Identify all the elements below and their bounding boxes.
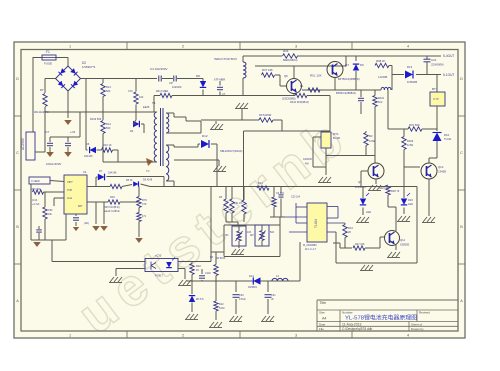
svg-text:1200CR: 1200CR <box>303 158 312 161</box>
svg-text:C30: C30 <box>239 294 244 297</box>
svg-text:+C35: +C35 <box>155 254 162 258</box>
svg-text:ZD 5.6: ZD 5.6 <box>196 298 204 301</box>
svg-text:3: 3 <box>295 334 297 338</box>
svg-text:C50: C50 <box>48 209 53 212</box>
svg-text:C31: C31 <box>271 294 276 297</box>
svg-text:473: 473 <box>142 202 147 206</box>
svg-text:B: B <box>460 225 463 229</box>
svg-text:D: D <box>16 77 19 81</box>
svg-text:C21: C21 <box>431 58 437 62</box>
svg-text:R31 560: R31 560 <box>409 123 420 127</box>
svg-text:102: 102 <box>139 95 144 99</box>
svg-text:R27 10K: R27 10K <box>355 243 365 246</box>
svg-text:A: A <box>16 299 19 303</box>
svg-text:6TF MBR: 6TF MBR <box>214 78 225 82</box>
svg-text:3.7V: 3.7V <box>433 97 439 101</box>
svg-text:D12: D12 <box>202 134 208 138</box>
svg-text:FUSE: FUSE <box>44 62 52 66</box>
svg-text:C23 104: C23 104 <box>291 196 301 199</box>
svg-text:C4 102/400V: C4 102/400V <box>150 67 168 71</box>
svg-text:Gnd: Gnd <box>67 196 72 200</box>
svg-text:Size: Size <box>319 311 325 315</box>
svg-text:D8: D8 <box>196 74 200 78</box>
svg-text:Q7: Q7 <box>345 63 349 67</box>
svg-text:D10: D10 <box>444 133 450 137</box>
svg-text:4: 4 <box>407 334 409 338</box>
svg-text:RT: RT <box>40 88 44 92</box>
svg-text:1N5397*4: 1N5397*4 <box>82 65 96 69</box>
svg-text:+C6: +C6 <box>70 130 76 134</box>
svg-text:R1: R1 <box>300 84 304 88</box>
svg-text:(C13: (C13 <box>32 199 38 202</box>
svg-text:BZ50C4(389B-D): BZ50C4(389B-D) <box>336 91 356 95</box>
svg-text:R13: R13 <box>106 85 111 89</box>
svg-text:adusF C/NPuF: adusF C/NPuF <box>104 210 120 213</box>
svg-text:3: 3 <box>295 45 297 49</box>
svg-text:470uF: 470uF <box>239 298 246 301</box>
svg-text:Number: Number <box>342 311 353 315</box>
svg-text:4: 4 <box>407 45 409 49</box>
svg-text:R10 10: R10 10 <box>103 143 112 147</box>
svg-text:B+2R: B+2R <box>333 136 340 140</box>
svg-text:R0 510K: R0 510K <box>216 257 226 260</box>
svg-text:AC250V: AC250V <box>21 137 25 150</box>
svg-text:R013 563: R013 563 <box>90 117 102 121</box>
svg-text:1K2: 1K2 <box>378 101 383 104</box>
svg-text:R023: R023 <box>407 139 414 143</box>
svg-text:1/4W: 1/4W <box>369 139 376 143</box>
svg-text:D4: D4 <box>130 129 134 133</box>
svg-text:Q9: Q9 <box>358 180 362 184</box>
svg-text:D14: D14 <box>249 274 254 278</box>
svg-text:F1: F1 <box>46 50 50 54</box>
svg-text:563: 563 <box>106 89 111 93</box>
svg-text:D5 4148: D5 4148 <box>143 179 153 182</box>
svg-text:1N5819: 1N5819 <box>248 286 257 289</box>
svg-text:Sheet of: Sheet of <box>411 322 422 326</box>
svg-text:R022: R022 <box>378 97 385 100</box>
svg-text:SBL2040CT(R10A): SBL2040CT(R10A) <box>220 149 242 153</box>
svg-text:A4: A4 <box>322 317 326 321</box>
svg-text:PC817: PC817 <box>155 274 163 278</box>
svg-text:EE25: EE25 <box>143 105 150 109</box>
svg-text:(2SD5088): (2SD5088) <box>282 97 296 101</box>
svg-text:C: C <box>16 151 19 155</box>
svg-text:Q6: Q6 <box>284 74 288 78</box>
svg-text:D6: D6 <box>86 142 90 146</box>
svg-text:563: 563 <box>106 126 111 130</box>
svg-text:B: B <box>16 225 19 229</box>
svg-text:1: 1 <box>69 45 71 49</box>
svg-text:471: 471 <box>142 215 147 218</box>
svg-text:1N4148: 1N4148 <box>108 172 117 175</box>
svg-text:C9 103: C9 103 <box>276 192 284 195</box>
svg-text:220/600M: 220/600M <box>431 63 444 67</box>
svg-text:R14: R14 <box>106 122 111 126</box>
svg-text:D7: D7 <box>99 169 103 173</box>
svg-text:100uF/400V: 100uF/400V <box>46 162 61 166</box>
svg-text:Q10: Q10 <box>438 165 444 169</box>
svg-text:102/400: 102/400 <box>172 85 182 89</box>
svg-text:C:\Designs\yl578.ddb: C:\Designs\yl578.ddb <box>342 327 373 331</box>
svg-text:R06 30K: R06 30K <box>31 188 41 191</box>
svg-text:5-1OUT: 5-1OUT <box>443 73 454 77</box>
svg-text:R31: R31 <box>283 49 289 53</box>
svg-text:C945B: C945B <box>438 170 446 174</box>
svg-text:R37 436: R37 436 <box>262 68 273 72</box>
svg-text:1N4148: 1N4148 <box>84 155 93 158</box>
svg-text:Title: Title <box>320 301 327 305</box>
svg-text:T1: T1 <box>152 101 156 105</box>
svg-text:SS8050: SS8050 <box>400 243 410 247</box>
svg-text:R08 2K: R08 2K <box>376 59 385 63</box>
svg-text:R0 5125W: R0 5125W <box>259 113 272 117</box>
svg-text:Q11: Q11 <box>400 238 406 242</box>
svg-text:2K: 2K <box>348 230 351 234</box>
svg-text:CP: CP <box>169 81 173 85</box>
svg-text:TOP: TOP <box>67 188 73 192</box>
svg-text:D9: D9 <box>360 63 364 67</box>
svg-text:TR: TR <box>146 169 150 173</box>
svg-text:502: 502 <box>270 231 275 234</box>
svg-text:U1: U1 <box>83 170 87 174</box>
svg-text:R24: R24 <box>258 182 263 185</box>
svg-text:R22: R22 <box>196 264 201 268</box>
svg-text:11-Aug-2013: 11-Aug-2013 <box>342 322 361 326</box>
svg-text:1: 1 <box>69 334 71 338</box>
svg-text:512C: 512C <box>219 307 225 310</box>
svg-text:L4V20B: L4V20B <box>378 75 388 79</box>
svg-text:R011 3K3(9B-D): R011 3K3(9B-D) <box>290 100 309 104</box>
svg-text:LED: LED <box>366 210 371 214</box>
svg-text:R0L 12K: R0L 12K <box>310 74 322 78</box>
svg-text:(A6): (A6) <box>84 222 89 225</box>
svg-text:2: 2 <box>182 45 184 49</box>
svg-text:15K 1%: 15K 1% <box>234 202 243 205</box>
svg-text:M_C84C88C: M_C84C88C <box>303 244 317 247</box>
svg-text:C NEW: C NEW <box>31 179 40 183</box>
svg-text:TL494: TL494 <box>314 219 318 228</box>
svg-text:C: C <box>460 151 463 155</box>
svg-text:D13: D13 <box>407 65 413 69</box>
svg-text:R70: R70 <box>142 198 147 202</box>
svg-text:1/4W: 1/4W <box>407 143 414 147</box>
svg-text:VIP?: VIP? <box>67 180 73 184</box>
svg-text:D16: D16 <box>408 198 413 202</box>
svg-text:TL431: TL431 <box>444 137 452 141</box>
svg-text:YL-578锂电池充电器原理图: YL-578锂电池充电器原理图 <box>345 313 417 321</box>
svg-text:R5 1K: R5 1K <box>126 179 133 182</box>
svg-text:R16: R16 <box>110 195 115 199</box>
svg-text:A: A <box>460 299 463 303</box>
svg-text:Revised: Revised <box>419 311 430 315</box>
svg-text:R2: R2 <box>369 134 373 138</box>
svg-text:8d?: 8d? <box>78 204 83 208</box>
svg-text:1K: 1K <box>196 268 199 272</box>
svg-text:R30 74: R30 74 <box>391 189 400 193</box>
svg-text:C102: C102 <box>205 272 211 275</box>
svg-text:D: D <box>460 77 463 81</box>
svg-text:R19: R19 <box>348 226 353 230</box>
svg-text:W-L-C-1-?: W-L-C-1-? <box>305 248 317 251</box>
svg-text:MED(9B-D): MED(9B-D) <box>283 58 298 62</box>
svg-text:INDUCTOR BOX: INDUCTOR BOX <box>214 57 237 61</box>
svg-text:5-4OUT: 5-4OUT <box>443 54 454 58</box>
svg-text:2: 2 <box>182 334 184 338</box>
svg-text:LED: LED <box>408 202 413 206</box>
svg-text:Drawn by: Drawn by <box>411 327 424 331</box>
svg-text:Date: Date <box>319 322 326 326</box>
svg-text:C7k: C7k <box>128 89 133 93</box>
svg-text:File: File <box>319 327 324 331</box>
svg-text:+4.7uF: +4.7uF <box>32 203 40 206</box>
svg-text:R017 MED: R017 MED <box>156 90 168 93</box>
svg-text:+C7: +C7 <box>44 130 50 134</box>
svg-text:R070 NC(B-D): R070 NC(B-D) <box>104 206 120 209</box>
svg-text:1N520B: 1N520B <box>407 80 417 84</box>
svg-text:R12: R12 <box>219 303 224 306</box>
